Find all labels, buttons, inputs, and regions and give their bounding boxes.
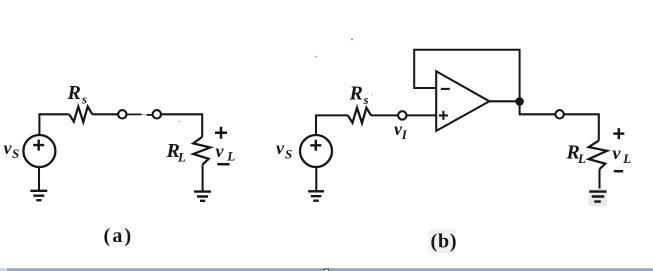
label vS (b) [276,138,292,162]
svg-text:v: v [276,138,285,158]
label vL (b) [613,143,632,166]
svg-text:I: I [401,127,408,142]
svg-text:(b): (b) [431,231,458,253]
ground under source (a) [30,191,47,200]
svg-text:L: L [177,150,186,165]
op-amp minus input sign [441,88,450,90]
wire source top to resistor (b) [316,115,348,135]
plus sign inside source (a) [33,140,44,151]
svg-text:S: S [285,147,292,162]
plus sign inside source (b) [310,140,321,151]
svg-text:L: L [577,151,586,166]
resistor RL (b) [589,141,607,170]
voltage source VS (b) [300,135,332,167]
voltage source VS (a) [23,135,55,167]
op-amp output wire [489,100,519,102]
output junction dot [515,97,524,106]
label vL (a) [216,141,236,164]
scan speck 4 [371,94,373,96]
svg-text:s: s [363,92,369,107]
terminal circle 2 (a) [153,110,161,118]
minus sign of vL (a) [217,163,229,166]
wire source bottom to ground (a) [38,167,40,190]
op-amp U1 triangle [436,71,489,131]
plus sign of vL (a) [215,127,227,139]
svg-text:v: v [613,143,622,163]
ground under RL (b) [589,192,606,202]
op-amp plus input sign [439,111,448,120]
node circle vI (b) [398,111,406,119]
wire terminal to RL corner (b) [564,114,599,140]
minus sign of vL (b) [614,170,623,173]
label RL (b) [566,142,587,167]
scan speck 3 [179,121,181,122]
bottom scrollbar light left segment [0,268,7,271]
scan speck 2 [315,56,317,57]
svg-text:S: S [12,146,19,161]
wire output down and right to terminal (b) [520,102,556,115]
gray scan halo behind ground of RL (b) [589,189,608,207]
feedback wire from minus input over the top to output [414,50,519,98]
resistor Rs (a) [69,107,92,122]
bottom scrollbar main bar [7,268,653,271]
wire source top to resistor (a) [39,114,69,135]
resistor RL (a) [193,137,210,165]
gray scan box behind caption (b) [429,230,456,254]
scan speck 1 [351,39,353,41]
svg-text:L: L [226,149,235,164]
svg-text:R: R [67,82,81,104]
wire terminal 2 to RL corner (a) [161,114,202,137]
caption (b) [431,231,458,253]
terminal circle (b) [555,110,563,118]
svg-text:(a): (a) [104,225,134,247]
wire resistor to terminal 1 (a) [92,113,118,115]
label vI [394,119,408,142]
ground under source (b) [308,191,324,200]
resistor Rs (b) [348,108,371,123]
wire source bottom to ground (b) [315,167,317,191]
ground under RL (a) [194,192,211,201]
label Rs (b) [349,83,369,108]
terminal circle 1 (a) [118,110,126,118]
svg-text:L: L [622,151,631,166]
label RL (a) [166,140,187,165]
wire RL to ground (b) [598,169,600,191]
wire between terminals (a) [127,113,153,116]
wire RL to ground (a) [202,165,204,191]
wire node to op-amp plus input (b) [407,114,437,116]
wire resistor to node circle (b) [371,114,398,116]
svg-text:s: s [81,92,87,107]
label vS (a) [4,138,20,161]
svg-text:R: R [349,83,363,105]
bottom scrollbar handle square [324,269,329,271]
svg-text:v: v [216,141,225,161]
caption (a) [104,225,134,247]
label Rs (a) [67,82,88,107]
plus sign of vL (b) [613,128,624,139]
